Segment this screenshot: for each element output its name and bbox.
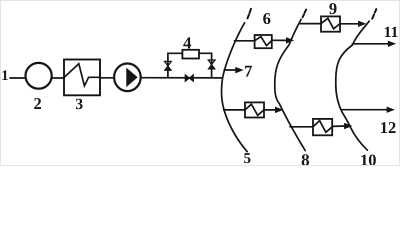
svg-text:12: 12 <box>380 118 397 137</box>
wire arc2 to lower exchanger box 2 <box>290 126 313 128</box>
wire circle 2 to box 3 <box>52 77 64 79</box>
arrow box 9 to arc 3 <box>340 23 360 25</box>
svg-text:11: 11 <box>384 24 399 41</box>
bypass left riser <box>168 53 183 77</box>
zigzag inside lower box 1 <box>245 104 264 115</box>
bypass right horizontal <box>199 52 212 54</box>
main line valve <box>185 75 189 82</box>
svg-text:4: 4 <box>183 34 192 53</box>
zigzag inside box 9 <box>321 18 340 29</box>
arc 1 <box>222 23 248 152</box>
box 9 (heat exchanger) <box>321 16 340 31</box>
svg-text:10: 10 <box>360 151 377 166</box>
box 3 (heater with zigzag) <box>64 60 100 96</box>
wire pump to arc 1 <box>141 77 222 79</box>
arrow 7 out of arc 1 <box>224 69 237 71</box>
box 6 (heat exchanger) <box>255 35 272 48</box>
arrow box 6 to arc 2 <box>272 39 288 41</box>
arc 2 <box>275 19 305 150</box>
arc 3 <box>336 21 369 150</box>
arc 3 dashed top <box>372 9 376 19</box>
lower heat exchanger box between arc1 and arc2 <box>245 102 264 117</box>
svg-text:2: 2 <box>33 94 41 113</box>
svg-text:9: 9 <box>329 1 337 18</box>
svg-text:7: 7 <box>244 62 252 81</box>
svg-text:6: 6 <box>263 9 271 28</box>
arc 2 dashed top <box>303 10 307 18</box>
arrow 12 out of arc 3 <box>342 109 389 111</box>
svg-text:1: 1 <box>1 68 8 84</box>
wire arc2 to box 9 <box>300 23 321 25</box>
zigzag inside lower box 2 <box>313 121 332 133</box>
arrow lower box 1 to arc 2 <box>264 109 277 111</box>
circle 2 (inlet element) <box>25 63 51 89</box>
resistor-style box 4 <box>182 50 199 59</box>
arrow 11 out of arc 3 <box>352 43 389 45</box>
valve on left riser <box>165 61 172 66</box>
svg-text:5: 5 <box>243 151 251 165</box>
pump circle <box>114 64 141 92</box>
svg-text:8: 8 <box>301 151 310 166</box>
zigzag inside box 3 <box>64 64 100 86</box>
arrow lower box 2 to arc 3 <box>332 125 345 127</box>
lower heat exchanger box between arc2 and arc3 <box>313 119 332 135</box>
zigzag inside box 6 <box>255 37 272 46</box>
wire box 3 to pump <box>100 77 114 79</box>
valve on right riser <box>208 60 215 65</box>
bypass right riser <box>211 53 213 78</box>
wire inlet from label 1 to circle 2 <box>10 77 26 79</box>
pump triangle rotor <box>127 69 137 86</box>
wire arc1 to lower exchanger box <box>224 109 245 111</box>
arc 1 dashed top <box>248 9 252 18</box>
wire arc1 to box 6 <box>235 40 255 42</box>
svg-text:3: 3 <box>75 96 83 113</box>
